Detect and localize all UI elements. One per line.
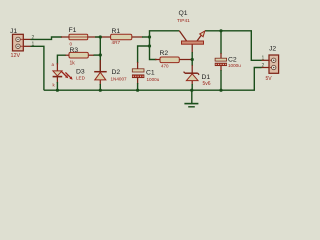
emitter lead — [197, 35, 202, 42]
pin stubs J2 — [262, 59, 270, 61]
junction D2/rail — [99, 89, 102, 92]
wire Q1 base down to node E — [191, 44, 193, 53]
wire node D left to C1 — [138, 46, 150, 63]
ground — [184, 90, 198, 107]
pin stubs J1 — [23, 38, 30, 40]
capacitor C2 — [215, 58, 227, 65]
transistor Q1 TIP41 — [179, 31, 205, 44]
svg-text:R3: R3 — [70, 47, 79, 54]
LED D3 — [53, 71, 73, 80]
junction node C (R3/D2) — [99, 53, 102, 56]
svg-text:LED: LED — [76, 75, 86, 80]
resistor R3 — [66, 52, 89, 58]
wire ground rail (bottom) — [44, 68, 262, 91]
wire D2 anode down to rail — [99, 80, 101, 85]
wire C1 bottom lead to rail — [137, 78, 139, 84]
svg-text:R1: R1 — [112, 28, 121, 35]
zener D1 5v6 — [184, 72, 200, 81]
LED arrow 2 — [65, 72, 70, 77]
wire node E down to D1 — [191, 65, 193, 73]
wire Q1 emitter rail to J2 pin1 — [205, 31, 262, 61]
svg-text:D1: D1 — [202, 74, 211, 81]
junction C2/rail — [219, 89, 222, 92]
svg-text:1N4007: 1N4007 — [111, 76, 128, 81]
svg-text:1k: 1k — [70, 61, 76, 67]
svg-text:F1: F1 — [69, 27, 77, 34]
wire node B up and right to Q1 collector — [150, 31, 180, 37]
svg-text:4R7: 4R7 — [112, 40, 121, 45]
collector lead — [179, 31, 187, 41]
wire J1 pin2 to F1 (top rail jog) — [31, 37, 63, 39]
wire J1 pin1 down to ground rail — [31, 46, 44, 90]
wire C1 top lead — [137, 62, 139, 69]
svg-text:J1: J1 — [10, 28, 17, 35]
wire LED cathode down to rail — [56, 77, 58, 84]
LED arrow 1 — [61, 71, 66, 76]
junction LED/rail — [56, 89, 59, 92]
connector J1 — [13, 34, 31, 51]
junction C1/rail — [136, 89, 139, 92]
junction node A (F1/R1/R3) — [99, 35, 102, 38]
resistor R1 — [111, 34, 132, 40]
wire node F down to C2 — [220, 31, 222, 54]
svg-text:J2: J2 — [269, 46, 276, 53]
capacitor C1 — [132, 69, 144, 78]
svg-text:5v6: 5v6 — [203, 81, 211, 87]
junction node B (R1/collector/C1-R2) — [148, 35, 151, 38]
svg-text:2: 2 — [262, 63, 265, 69]
wire node C down to D2 — [99, 55, 101, 72]
svg-text:D2: D2 — [112, 69, 121, 76]
svg-text:R2: R2 — [160, 50, 169, 57]
svg-text:470: 470 — [161, 64, 169, 69]
wire R3 right to node C — [88, 54, 94, 56]
junction D1/rail (ground) — [190, 89, 193, 92]
junction node F (emitter/C2) — [219, 29, 222, 32]
wire C2 bottom lead to rail — [220, 66, 222, 72]
svg-text:1: 1 — [32, 42, 35, 48]
junction node D (C1 branch) — [148, 44, 151, 47]
base bar — [182, 41, 204, 44]
wire node A down to R3/D2 node — [99, 37, 101, 55]
junction node E (R2/base/D1) — [191, 58, 194, 61]
svg-text:1000u: 1000u — [228, 63, 241, 68]
svg-text:5V: 5V — [266, 76, 273, 82]
wire node A to R1 — [100, 36, 110, 38]
svg-text:C1: C1 — [146, 70, 155, 77]
svg-text:2: 2 — [32, 35, 35, 41]
connector J2 — [262, 55, 279, 73]
fuse F1 — [61, 34, 88, 40]
wire F1 to node A — [88, 36, 101, 38]
svg-text:Q1: Q1 — [179, 10, 188, 17]
wire D1 anode down to rail — [191, 81, 193, 85]
svg-text:12V: 12V — [11, 53, 21, 59]
svg-text:1000u: 1000u — [147, 77, 160, 82]
wire node B down to R2 corner — [150, 37, 157, 60]
svg-text:1: 1 — [262, 56, 265, 62]
wire R2 left lead — [155, 59, 160, 61]
wire R1 to node B — [132, 36, 143, 38]
wire LED branch corner to R3 — [57, 55, 66, 64]
svg-text:TIP41: TIP41 — [177, 18, 190, 24]
wire LED anode lead — [56, 63, 58, 71]
diode D2 1N4007 — [94, 72, 107, 80]
wire R2 right lead to base node — [179, 59, 192, 61]
resistor R2 — [160, 57, 179, 63]
emitter arrow — [200, 31, 205, 37]
